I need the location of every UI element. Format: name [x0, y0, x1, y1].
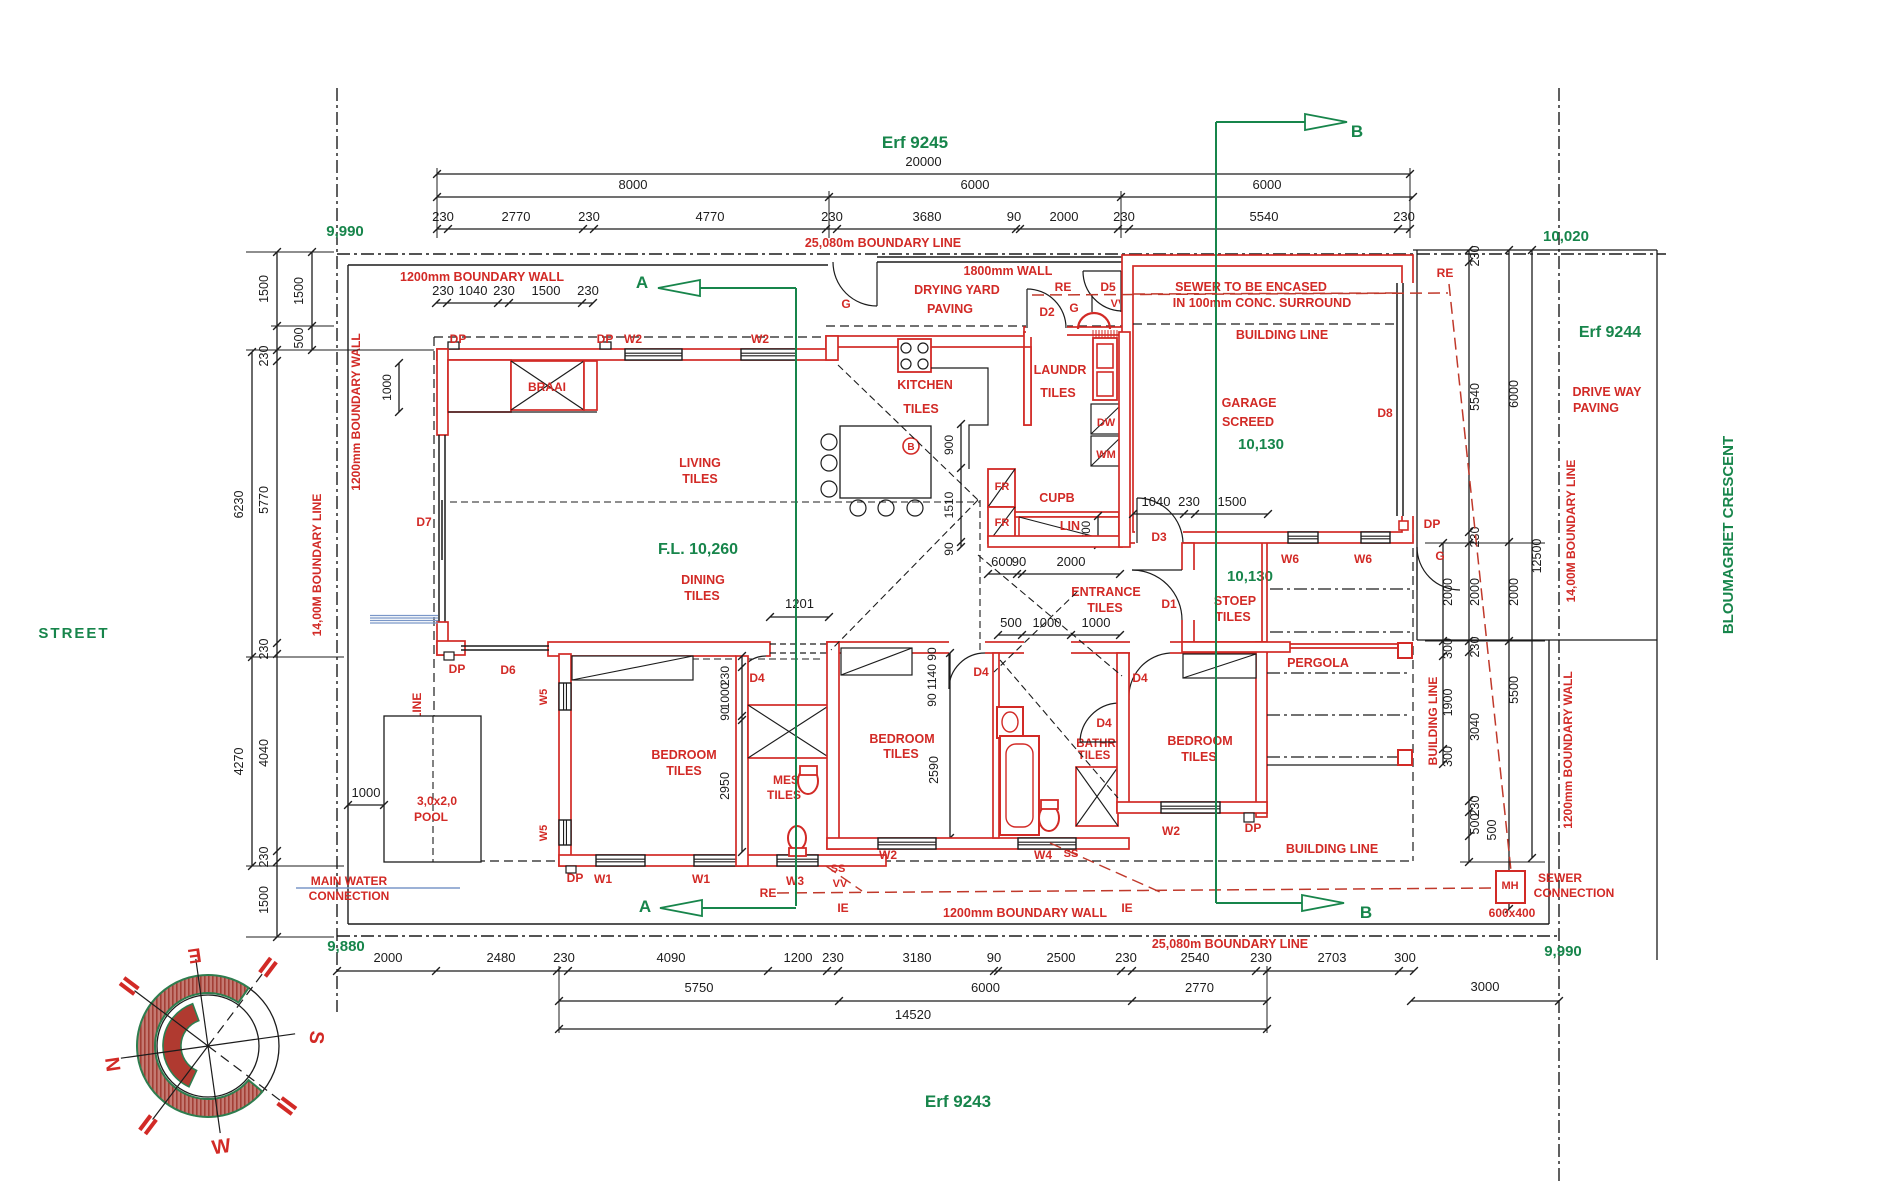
dim extension top x829: [828, 191, 830, 238]
pergola south line: [1267, 764, 1413, 766]
window W3: [777, 855, 818, 866]
svg-text:D6: D6: [500, 663, 516, 677]
manhole MH box: [1496, 871, 1525, 903]
svg-text:A: A: [636, 273, 648, 292]
svg-text:D2: D2: [1039, 305, 1055, 319]
svg-text:IE: IE: [1121, 901, 1132, 915]
svg-text:230: 230: [1468, 637, 1482, 658]
svg-text:W6: W6: [1281, 552, 1299, 566]
dim 1000 pool: [348, 804, 384, 806]
sewer branch bath: [1050, 843, 1160, 892]
svg-text:500: 500: [292, 328, 306, 349]
gate G drying yard arc: [833, 262, 877, 306]
table dining: [840, 426, 931, 498]
sewer line right diagonal: [1449, 284, 1511, 871]
svg-text:90: 90: [987, 950, 1001, 965]
svg-text:SS: SS: [831, 863, 846, 875]
door D1 opening: [1180, 570, 1196, 620]
living dining divider dashed: [450, 501, 980, 503]
svg-text:1900: 1900: [1441, 689, 1455, 717]
svg-text:2000: 2000: [1050, 209, 1079, 224]
svg-text:SS: SS: [1064, 848, 1079, 860]
dim row 230/1040/230/1500/230 small: [436, 302, 593, 304]
svg-text:230: 230: [1468, 796, 1482, 817]
window W4 bath: [1018, 838, 1076, 849]
svg-text:BUILDING LINE: BUILDING LINE: [1286, 842, 1378, 856]
window W2 bed3: [1161, 802, 1220, 813]
svg-text:BATHR: BATHR: [1076, 738, 1116, 750]
svg-text:TILES: TILES: [1040, 386, 1075, 400]
svg-text:D4: D4: [1132, 671, 1148, 685]
svg-text:2770: 2770: [1185, 980, 1214, 995]
svg-text:BUILDING LINE: BUILDING LINE: [1236, 328, 1328, 342]
door D4 bed2 arc: [949, 653, 985, 689]
svg-text:230: 230: [432, 209, 454, 224]
window W5 lower: [559, 820, 571, 845]
dim extension bottom x559: [558, 966, 560, 1033]
door D4 bed1 arc: [737, 656, 766, 685]
downpipe DP garage: [1399, 521, 1408, 530]
svg-text:230: 230: [1250, 950, 1272, 965]
svg-text:1200mm BOUNDARY WALL: 1200mm BOUNDARY WALL: [400, 270, 564, 284]
svg-text:TILES: TILES: [883, 747, 918, 761]
svg-text:5500: 5500: [1507, 676, 1521, 704]
svg-text:90: 90: [718, 707, 732, 721]
svg-text:STREET: STREET: [38, 625, 109, 642]
pergola north beam: [1290, 643, 1407, 645]
wall stoep south: [1182, 642, 1290, 652]
svg-text:230: 230: [257, 346, 271, 367]
svg-text:1510: 1510: [942, 491, 956, 518]
svg-text:BRAAI: BRAAI: [528, 380, 566, 394]
door D4 bath arc: [1080, 703, 1118, 742]
svg-text:4090: 4090: [657, 950, 686, 965]
cupboard top shelf line: [1015, 512, 1119, 517]
svg-text:D5: D5: [1100, 280, 1116, 294]
svg-text:5540: 5540: [1468, 383, 1482, 411]
svg-text:14520: 14520: [895, 1007, 931, 1022]
dim extension left y657: [246, 656, 344, 658]
door D6 lines: [461, 645, 549, 647]
svg-text:1000: 1000: [380, 374, 394, 401]
svg-text:DINING: DINING: [681, 573, 725, 587]
svg-text:TILES: TILES: [1087, 601, 1122, 615]
wall living west upper: [437, 349, 448, 435]
dim extension left y866: [246, 865, 344, 867]
svg-text:6230: 6230: [232, 491, 246, 519]
dim 500/1000/1000 entrance: [998, 634, 1120, 636]
svg-text:1000: 1000: [1082, 615, 1111, 630]
svg-text:1500: 1500: [1218, 494, 1247, 509]
svg-text:20000: 20000: [905, 154, 941, 169]
svg-text:D4: D4: [749, 671, 765, 685]
wall bedroom2 west: [827, 642, 839, 849]
svg-text:2000: 2000: [1057, 554, 1086, 569]
bath basin: [997, 707, 1023, 738]
sewer branch mes: [826, 866, 862, 891]
svg-text:LIVING: LIVING: [679, 456, 721, 470]
svg-text:1500: 1500: [257, 275, 271, 303]
svg-text:1200: 1200: [784, 950, 813, 965]
svg-text:6000: 6000: [1253, 177, 1282, 192]
svg-text:TILES: TILES: [682, 472, 717, 486]
wall living west lower: [437, 622, 448, 655]
svg-text:TILES: TILES: [903, 402, 938, 416]
braai hearth line: [448, 411, 597, 413]
wall laundry west: [1024, 332, 1031, 425]
driveway edge line vertical: [1416, 250, 1418, 640]
wall laundry north: [1024, 327, 1124, 335]
sewer line through garage (red dashed): [1133, 293, 1396, 294]
wall bedroom1 west: [559, 654, 571, 866]
erf corner line horizontal: [1417, 639, 1657, 641]
boundary wall inner line left: [347, 265, 349, 924]
pool box: [384, 716, 481, 862]
garage walls outline: [1122, 255, 1413, 543]
appliance WM box: [1091, 436, 1122, 466]
dash diagonal entrance cross: [994, 592, 1077, 672]
svg-text:1000: 1000: [352, 785, 381, 800]
svg-text:W4: W4: [1034, 848, 1052, 862]
gate G laundry red arch: [1078, 313, 1110, 329]
svg-text:D7: D7: [416, 515, 432, 529]
dim extension left y326: [271, 325, 334, 327]
svg-text:W6: W6: [1354, 552, 1372, 566]
svg-text:230: 230: [257, 847, 271, 868]
fridge FR box lower: [988, 507, 1015, 543]
dim 900/1510/90 vertical: [960, 424, 962, 547]
svg-text:W5: W5: [538, 825, 550, 842]
svg-text:W1: W1: [594, 872, 612, 886]
point B on table: [903, 438, 919, 454]
svg-text:2540: 2540: [1181, 950, 1210, 965]
door D4 bed3 arc: [1129, 653, 1170, 700]
downpipe DP bed3: [1244, 813, 1254, 822]
pool divider dashed: [432, 716, 434, 862]
svg-text:W2: W2: [1162, 824, 1180, 838]
bottom dim 14520: [559, 1028, 1267, 1030]
svg-text:SEWER: SEWER: [1538, 871, 1582, 885]
svg-text:CUPB: CUPB: [1039, 491, 1074, 505]
braai right pier: [584, 361, 597, 410]
wall bedroom3 west: [1117, 653, 1129, 811]
garage inner white: [1133, 266, 1402, 532]
bottom dim row 2000...300: [337, 970, 1414, 972]
right dim col 12500: [1531, 250, 1533, 858]
chairs bottom: [850, 500, 866, 516]
opening entrance-south: [1024, 640, 1071, 655]
sewer line bottom horizontal: [777, 888, 1496, 893]
svg-text:14,00M BOUNDARY LINE: 14,00M BOUNDARY LINE: [310, 494, 324, 637]
door D1 arc: [1132, 570, 1182, 620]
svg-text:230: 230: [822, 950, 844, 965]
building line through garage (dashed): [1133, 323, 1396, 325]
dash diagonal node to dining sw: [831, 500, 978, 650]
svg-text:500: 500: [1485, 820, 1499, 841]
wall kitchen north: [826, 336, 1030, 347]
dim extension top-right x1410: [1409, 168, 1411, 238]
svg-text:1200mm BOUNDARY WALL: 1200mm BOUNDARY WALL: [1561, 671, 1575, 828]
svg-text:2000: 2000: [1507, 578, 1521, 606]
svg-text:4770: 4770: [696, 209, 725, 224]
svg-text:BLOUMAGRIET CRESCENT: BLOUMAGRIET CRESCENT: [1720, 436, 1737, 634]
svg-text:DRIVE WAY: DRIVE WAY: [1572, 385, 1642, 399]
svg-text:1500: 1500: [257, 886, 271, 914]
svg-text:N: N: [100, 1056, 124, 1073]
wall bedroom3 east: [1256, 642, 1267, 817]
svg-text:DP: DP: [450, 332, 467, 346]
svg-text:12500: 12500: [1530, 539, 1544, 574]
svg-text:3000: 3000: [1471, 979, 1500, 994]
svg-text:25,080m BOUNDARY LINE: 25,080m BOUNDARY LINE: [1152, 937, 1308, 951]
svg-text:2500: 2500: [1047, 950, 1076, 965]
svg-text:D8: D8: [1377, 406, 1393, 420]
window W2 left on north wall: [625, 349, 682, 360]
svg-text:DP: DP: [567, 871, 584, 885]
building line right (dashed): [1412, 324, 1414, 861]
door D2 arc: [1027, 289, 1066, 328]
svg-text:1500: 1500: [292, 277, 306, 305]
svg-text:8000: 8000: [619, 177, 648, 192]
svg-text:1000: 1000: [718, 682, 732, 709]
section A line vertical: [795, 288, 797, 906]
svg-text:230: 230: [578, 209, 600, 224]
svg-text:1000: 1000: [1033, 615, 1062, 630]
boundary line bottom 25,080m (dash-dot): [337, 935, 1559, 937]
kitchen wall east: [1024, 347, 1031, 425]
dim extension right y543: [1425, 542, 1545, 544]
svg-text:B: B: [1351, 122, 1363, 141]
svg-text:RE: RE: [760, 886, 777, 900]
svg-text:DP: DP: [1245, 821, 1262, 835]
wall stoep west: [1182, 543, 1194, 642]
svg-text:DW: DW: [1097, 417, 1116, 429]
door D5 opening: [1120, 270, 1135, 313]
svg-text:1040: 1040: [1142, 494, 1171, 509]
svg-text:BEDROOM: BEDROOM: [1167, 734, 1232, 748]
building line drying yard (dashed): [826, 325, 1122, 327]
appliance DW box: [1091, 404, 1122, 434]
svg-text:1201: 1201: [785, 596, 814, 611]
svg-text:230: 230: [553, 950, 575, 965]
dim row top detail 230/2770/230/4770/230/3680/90/2000/230/5540/230: [437, 228, 1410, 230]
svg-text:D4: D4: [1096, 716, 1112, 730]
svg-text:230: 230: [493, 283, 515, 298]
street kerb line right: [1656, 250, 1658, 960]
svg-text:230: 230: [1468, 246, 1482, 267]
svg-text:B: B: [1360, 903, 1372, 922]
door D5 arc: [1083, 271, 1121, 311]
laundry sink unit: [1093, 338, 1117, 400]
dim 1201: [770, 616, 829, 618]
svg-text:D1: D1: [1161, 597, 1177, 611]
svg-text:LIN: LIN: [1060, 519, 1080, 533]
opening D4 bed3: [1130, 640, 1170, 655]
bottom dim 5750/6000/2770: [559, 1000, 1267, 1002]
svg-text:2770: 2770: [502, 209, 531, 224]
svg-text:230: 230: [432, 283, 454, 298]
svg-text:3680: 3680: [913, 209, 942, 224]
dash vertical node: [979, 500, 981, 653]
svg-text:1500: 1500: [532, 283, 561, 298]
dim 600/90/2000 entrance: [988, 573, 1120, 575]
door D7 sliding (black lines): [438, 435, 440, 622]
svg-text:W1: W1: [692, 872, 710, 886]
svg-text:1800mm WALL: 1800mm WALL: [964, 264, 1053, 278]
dim 2590 bed2: [949, 653, 951, 838]
svg-text:3180: 3180: [903, 950, 932, 965]
main water line blue: [296, 887, 460, 889]
downpipe DP box bed1: [566, 866, 576, 873]
svg-text:STOEP: STOEP: [1214, 594, 1256, 608]
dim extension top x1121: [1120, 191, 1122, 238]
svg-text:W2: W2: [751, 332, 769, 346]
pergola post upper: [1398, 643, 1412, 658]
boundary wall inner line bottom: [348, 923, 1549, 925]
section A top arrow: [700, 287, 796, 289]
left dim col 1500/500: [311, 252, 313, 350]
svg-text:90: 90: [925, 693, 939, 707]
bath toilet: [1039, 805, 1059, 831]
window W2 right on north wall: [741, 349, 796, 360]
wall bed2-bath divider: [993, 653, 999, 838]
svg-text:G: G: [1069, 301, 1078, 315]
downpipe DP box top-left: [448, 342, 459, 349]
wall living north: [437, 349, 837, 360]
stove burners: [901, 343, 911, 353]
wardrobe bedroom3: [1183, 654, 1256, 678]
svg-text:DP: DP: [597, 332, 614, 346]
svg-text:PERGOLA: PERGOLA: [1287, 656, 1349, 670]
wardrobe bedroom1: [572, 656, 693, 680]
svg-text:90: 90: [1007, 209, 1021, 224]
svg-text:PAVING: PAVING: [1573, 401, 1619, 415]
svg-text:BEDROOM: BEDROOM: [651, 748, 716, 762]
svg-text:KITCHEN: KITCHEN: [897, 378, 953, 392]
pergola dashdot rows lower: [1267, 672, 1410, 674]
dim 1000 braai: [398, 363, 400, 412]
svg-text:90: 90: [942, 542, 956, 556]
svg-text:6000: 6000: [1507, 380, 1521, 408]
wall bedroom3 south: [1117, 802, 1267, 813]
svg-text:9,880: 9,880: [327, 938, 365, 955]
svg-text:6000: 6000: [971, 980, 1000, 995]
svg-text:RE: RE: [1437, 266, 1454, 280]
dim extension left y252: [246, 251, 334, 253]
svg-text:230: 230: [1115, 950, 1137, 965]
svg-text:10,130: 10,130: [1227, 568, 1273, 585]
sewer line top horizontal: [1032, 293, 1448, 295]
door D4 bed1 opening: [736, 650, 766, 657]
svg-text:FR: FR: [995, 517, 1010, 529]
svg-text:WM: WM: [1096, 449, 1116, 461]
wall bedroom1 south: [559, 855, 886, 866]
section B top arrow: [1216, 121, 1305, 123]
dim row 8000/6000/6000: [437, 196, 1413, 198]
downpipe DP box top-mid: [600, 342, 611, 349]
building line garage top (dashed): [1122, 323, 1413, 325]
svg-text:230: 230: [257, 639, 271, 660]
svg-text:G: G: [841, 297, 850, 311]
stoep east line: [1261, 543, 1263, 642]
svg-text:G: G: [1435, 549, 1444, 563]
svg-text:BUILDING LINE: BUILDING LINE: [1426, 677, 1440, 766]
pergola dashdot rows upper: [1270, 588, 1410, 590]
svg-text:ENTRANCE: ENTRANCE: [1071, 585, 1140, 599]
svg-text:300: 300: [1441, 746, 1455, 767]
building line left (dashed): [433, 337, 435, 861]
window W2 bed2: [878, 838, 936, 849]
svg-text:2703: 2703: [1318, 950, 1347, 965]
wall cupb south: [988, 536, 1122, 547]
fridge FR box upper: [988, 469, 1015, 507]
svg-text:25,080m BOUNDARY LINE: 25,080m BOUNDARY LINE: [805, 236, 961, 250]
garage door D8 opening: [1396, 283, 1415, 516]
window W1 left: [596, 855, 645, 866]
svg-text:6000: 6000: [961, 177, 990, 192]
pergola post lower: [1398, 750, 1412, 765]
svg-text:1200mm BOUNDARY WALL: 1200mm BOUNDARY WALL: [943, 906, 1107, 920]
svg-text:1040: 1040: [459, 283, 488, 298]
svg-text:900: 900: [942, 435, 956, 455]
bath shower box: [1076, 767, 1118, 826]
svg-text:9,990: 9,990: [1544, 943, 1582, 960]
svg-text:TILES: TILES: [684, 589, 719, 603]
right dim col 2000/300/1900/300: [1442, 543, 1444, 764]
svg-text:9,990: 9,990: [326, 223, 364, 240]
boundary wall inner line top: [348, 264, 828, 266]
svg-text:90: 90: [925, 647, 939, 661]
svg-text:A: A: [639, 897, 651, 916]
drying yard wall 1800mm: [877, 256, 1122, 258]
downpipe DP box dining: [444, 652, 454, 660]
svg-text:5540: 5540: [1250, 209, 1279, 224]
svg-text:CONNECTION: CONNECTION: [309, 889, 390, 903]
dim 230/1000/90/2950 bed1: [741, 656, 743, 852]
svg-text:5770: 5770: [257, 486, 271, 514]
svg-text:TILES: TILES: [666, 764, 701, 778]
svg-text:FR: FR: [995, 481, 1010, 493]
svg-text:Erf 9245: Erf 9245: [882, 133, 948, 152]
svg-text:10,130: 10,130: [1238, 436, 1284, 453]
wall bed1-mes divider: [736, 656, 748, 866]
wall kitchen west pier: [826, 336, 838, 360]
kitchen stove box: [898, 339, 931, 372]
door D3 arc: [1137, 498, 1183, 543]
svg-text:600: 600: [991, 554, 1013, 569]
section A bottom arrow: [702, 907, 796, 909]
dim extension right y862: [1460, 861, 1545, 863]
svg-text:S: S: [304, 1030, 327, 1046]
boundary line right 14,00M (dash-dot): [1558, 88, 1560, 1185]
svg-text:300: 300: [1394, 950, 1416, 965]
svg-text:POOL: POOL: [414, 810, 448, 824]
dim extension right y641: [1425, 640, 1545, 642]
svg-text:MAIN WATER: MAIN WATER: [311, 874, 388, 888]
left dim col 6230/4270: [251, 352, 253, 866]
svg-text:CONNECTION: CONNECTION: [1534, 886, 1615, 900]
svg-text:2950: 2950: [718, 772, 732, 800]
dim extension bottom x1267: [1266, 966, 1268, 1033]
svg-text:3,0x2,0: 3,0x2,0: [417, 794, 457, 808]
wall bedroom2 south: [827, 838, 1129, 849]
svg-text:90: 90: [1012, 554, 1026, 569]
svg-text:4040: 4040: [257, 739, 271, 767]
section B bottom arrow: [1216, 902, 1302, 904]
svg-text:TILES: TILES: [1181, 750, 1216, 764]
bottom dim 3000: [1411, 1000, 1559, 1002]
svg-text:1200mm BOUNDARY WALL: 1200mm BOUNDARY WALL: [349, 333, 363, 490]
